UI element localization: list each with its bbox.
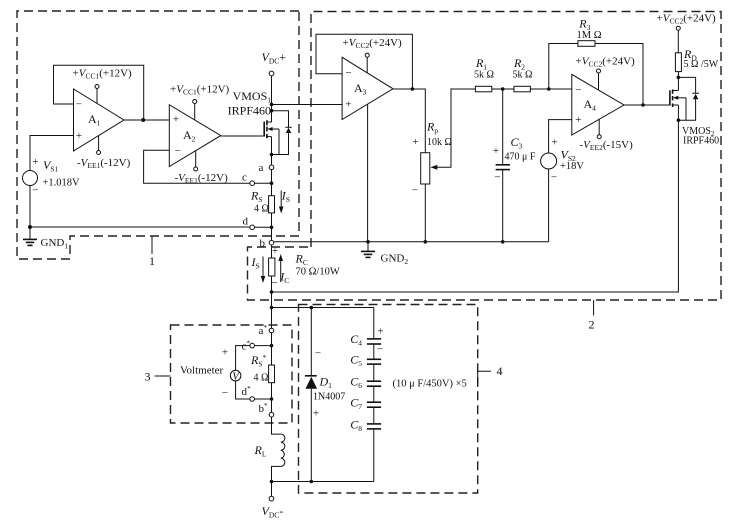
dashed box 2 (driver stage enclosure with notch) [248,12,722,301]
capacitor C6 [350,364,381,390]
wire VDC+ to VMOS1 drain [271,76,273,122]
svg-text:70 Ω/10W: 70 Ω/10W [296,267,340,278]
capacitor C8 [350,407,381,481]
resistor R1 5k [474,56,514,92]
svg-text:5 Ω /5W: 5 Ω /5W [684,59,719,70]
A4 -VEE2 pin [580,119,634,152]
node a terminal [259,162,274,174]
svg-text:1M Ω: 1M Ω [576,30,601,41]
node D1 top [310,306,314,310]
svg-text:5k Ω: 5k Ω [474,70,494,81]
svg-text:+: + [173,114,179,126]
svg-text:5k Ω: 5k Ω [513,70,533,81]
node c terminal [242,172,273,186]
svg-text:1: 1 [149,254,155,268]
svg-text:10k Ω: 10k Ω [427,137,452,148]
transistor VMOS2 IRPF460 [670,77,719,146]
svg-text:470 μ F: 470 μ F [505,152,536,163]
resistor R2 5k [513,56,572,92]
svg-text:4: 4 [497,364,503,378]
label 3 bracket [145,370,171,384]
dashed box 1 (input stage enclosure) [17,11,299,259]
inductor RL load [254,417,285,482]
wire RS bottom to node d [271,213,273,241]
svg-text:−: − [494,171,500,183]
current arrow IS through RS [279,189,290,214]
A1 -VEE1 pin [77,136,131,170]
wire A2 feedback loop to node c [144,150,250,183]
VMOS2 body diode [678,77,699,120]
node R1/C3 junction [501,87,505,91]
wire VS1 to A1 + input [30,136,74,171]
wire A4 output to VMOS2 gate [624,104,669,106]
A4 +VCC2 pin [576,56,636,91]
svg-text:+1.018V: +1.018V [43,177,81,188]
svg-text:+18V: +18V [560,161,584,172]
svg-text:+: + [32,156,38,168]
svg-text:+: + [313,408,319,420]
wire d from VS1 ground [30,226,250,228]
resistor RS* 4ohm [250,353,275,412]
node b* terminal [259,401,274,417]
node VMOS1 body-diode top [270,109,274,113]
svg-text:−: − [271,277,277,289]
wire a to c junction [271,170,273,196]
node VMOS2 drain [677,76,681,80]
A1 +VCC1 pin [73,68,133,104]
wire a* to c* junction [270,333,274,365]
op-amp A4 [572,74,624,135]
node VMOS1 drain to A3 [270,103,274,107]
node VS1/ground junction [28,225,32,229]
A2 -VEE1 pin [175,151,229,185]
svg-text:a: a [259,162,264,174]
resistor RD 5ohm/5W [675,47,718,78]
svg-text:−: − [575,84,581,96]
wire A4 + input to VS2 [549,120,572,153]
svg-text:(10 μ F/450V) ×5: (10 μ F/450V) ×5 [393,379,467,390]
op-amp A2 [169,105,221,167]
node A4 output / R3 [641,103,645,107]
terminal +VCC2 top right [657,13,717,53]
node R2/A4 inverting input [547,87,551,91]
wire top rail to capacitor bank [272,307,374,309]
svg-text:GND2: GND2 [381,253,409,267]
wire b to GND2 rail [274,241,549,243]
dashed box 4 (capacitor bank enclosure) [299,305,478,494]
svg-text:+VCC2(+24V): +VCC2(+24V) [343,37,403,50]
op-amp A1 [74,89,125,151]
node c* terminal [242,339,272,353]
Rp wiper arrow to R1 [430,89,475,170]
svg-text:−: − [76,99,82,111]
svg-text:−: − [222,387,228,399]
svg-text:+: + [575,114,581,126]
svg-text:+: + [222,347,228,359]
node top rail junction [270,306,274,310]
node VMOS1 source [270,153,274,157]
resistor R3 1M feedback [549,17,643,106]
VMOS1 body diode [272,111,292,155]
voltmeter V [180,346,250,399]
svg-text:Voltmeter: Voltmeter [180,365,224,377]
capacitor C3 470uF [493,89,536,244]
svg-text:-VEE1(-12V): -VEE1(-12V) [77,157,131,170]
svg-text:−: − [315,347,321,359]
terminal VDC- [262,482,284,520]
wire A3 output [393,89,425,153]
source VS2 +18V [541,137,585,242]
op-amp A3 [342,57,393,119]
resistor RS 4ohm [250,189,275,215]
node d* terminal [242,384,274,401]
svg-text:−: − [175,145,181,157]
svg-text:−: − [412,185,418,197]
svg-text:2: 2 [589,318,595,332]
node d terminal [243,216,274,230]
svg-text:−: − [32,185,38,197]
capacitor bank value label [393,379,467,390]
node VMOS2 source [677,118,681,122]
current arrow IC [278,254,289,285]
svg-text:3: 3 [145,370,151,384]
A2 +VCC1 pin [170,84,230,121]
A3 +VCC2 pin [343,37,403,73]
svg-text:c: c [242,172,247,184]
wire A1 output to A2 [124,119,169,121]
svg-text:d: d [243,216,249,228]
svg-text:+VCC1(+12V): +VCC1(+12V) [73,68,133,81]
node RC bottom / return wire junction [270,290,274,294]
node a* terminal [259,323,274,337]
transistor VMOS1 IRPF460 [228,89,279,165]
svg-text:+VCC2(+24V): +VCC2(+24V) [657,13,717,26]
svg-text:+VCC1(+12V): +VCC1(+12V) [170,84,230,97]
capacitor C4 [350,308,383,356]
svg-text:4 Ω: 4 Ω [254,373,269,384]
svg-text:+: + [345,99,351,111]
diode D1 1N4007 [305,308,345,482]
svg-text:+: + [412,136,418,148]
capacitor C5 [350,344,381,368]
resistor RC 70ohm/10W [269,245,340,328]
svg-text:GND1: GND1 [41,237,69,251]
potentiometer Rp 10k [412,120,452,244]
wire A1 feedback loop [54,65,144,120]
svg-text:+: + [377,325,383,337]
terminal VDC+ [262,50,287,76]
capacitor C7 [350,386,381,411]
svg-text:-VEE2(-15V): -VEE2(-15V) [580,139,634,152]
wire A3 minus rail to GND2 [367,104,369,242]
wire A3 feedback loop [316,34,412,89]
wire VS1 bottom to ground node [29,186,31,228]
svg-text:+: + [551,137,557,149]
svg-text:−: − [377,343,383,355]
node RL bottom junction [270,480,274,484]
current arrow IS into RC [251,255,266,283]
svg-text:−: − [551,171,557,183]
svg-text:−: − [345,67,351,79]
wire bottom rail [272,481,374,483]
node A1 output [141,118,145,122]
svg-text:1N4007: 1N4007 [313,392,345,403]
svg-text:+: + [76,130,82,142]
svg-text:VMOS1: VMOS1 [233,89,272,105]
wire drain node to A3 + input [272,104,343,106]
dashed box 3 (voltmeter enclosure) [171,325,293,423]
label 1 bracket [149,236,155,268]
svg-text:IRPF460: IRPF460 [228,104,271,118]
label 4 bracket [478,364,503,387]
ground GND2 [361,240,408,266]
svg-text:+: + [493,145,499,157]
svg-text:IRPF460: IRPF460 [683,136,719,147]
svg-text:4 Ω: 4 Ω [254,204,269,215]
node D1 bottom [310,480,314,484]
source VS1 [23,156,81,197]
wire RC bottom to VMOS2 source (return rail) [272,120,679,292]
wire A2 output to VMOS1 gate [221,135,264,137]
svg-text:+VCC2(+24V): +VCC2(+24V) [576,56,636,69]
ground GND1 [23,227,68,251]
node A3 output [411,87,415,91]
node b terminal [260,238,274,250]
label 2 bracket [589,300,595,332]
